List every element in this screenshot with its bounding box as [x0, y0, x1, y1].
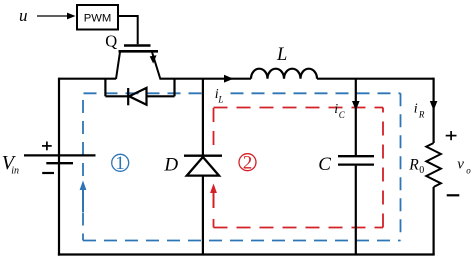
right (emitter) slant lead	[152, 52, 161, 80]
svg-text:2: 2	[243, 153, 253, 174]
label vo	[457, 157, 471, 176]
diode D (freewheeling, cathode up)	[184, 156, 222, 176]
svg-text:in: in	[11, 166, 19, 177]
emitter arrow	[150, 55, 157, 63]
wire: diode D branch lower segment	[202, 176, 204, 255]
svg-text:R: R	[408, 156, 419, 173]
node label circled 1 (blue)	[112, 153, 129, 174]
capacitor C	[338, 156, 374, 164]
wire: diode D branch upper segment	[202, 79, 204, 156]
svg-text:i: i	[334, 102, 338, 117]
label iC	[334, 102, 346, 120]
loop 2 (red dashed) right edge	[382, 108, 384, 228]
loop 2 (red dashed) left edge upper part	[213, 219, 215, 228]
left (collector) slant lead	[116, 52, 120, 79]
wire: load branch lower segment	[433, 187, 435, 255]
wire: top rail from inductor to output corner	[317, 78, 434, 80]
svg-text:PWM: PWM	[84, 13, 112, 25]
label Vin	[2, 152, 19, 176]
channel bar	[119, 50, 159, 53]
svg-text:0: 0	[419, 165, 424, 176]
svg-text:C: C	[318, 154, 331, 175]
loop 1 (blue dashed) left edge upper part	[82, 213, 84, 241]
label + of Vin	[42, 142, 52, 151]
battery Vin	[24, 155, 96, 163]
loop 1 (blue dashed) left edge lower part	[82, 93, 84, 176]
svg-text:R: R	[418, 110, 425, 120]
loop 2 (red dashed) top edge	[214, 107, 384, 109]
wire: drop from right rail to antiparallel diode branch	[173, 79, 175, 97]
input signal u arrow into PWM block	[37, 13, 76, 20]
inductor L	[251, 69, 317, 79]
svg-text:v: v	[457, 157, 464, 173]
loop 1 (blue dashed) bottom edge	[83, 240, 401, 242]
wire: drop from left rail to antiparallel diode branch	[104, 79, 106, 97]
wire: capacitor branch lower segment	[355, 166, 357, 255]
wire: PWM output to gate of Q	[118, 16, 138, 44]
wire: top-left rail from Vin+ to Q collector	[59, 78, 116, 80]
wire: antiparallel diode branch left segment	[105, 95, 129, 97]
current arrow iL on top rail	[224, 75, 234, 83]
label - of Vin	[42, 172, 54, 174]
svg-text:1: 1	[115, 153, 125, 174]
wire: left branch through battery Vin	[58, 78, 60, 256]
wire: antiparallel diode branch right segment	[147, 95, 175, 97]
node label circled 2 (red)	[239, 153, 256, 174]
label R0	[408, 156, 424, 176]
current arrow iC	[352, 101, 360, 111]
label + of vo	[446, 131, 457, 140]
gate bar	[124, 44, 151, 47]
svg-text:D: D	[163, 155, 178, 176]
transistor Q (IGBT switch)	[116, 46, 161, 80]
wire: top rail from Q emitter to inductor	[160, 78, 251, 80]
svg-text:L: L	[217, 95, 223, 105]
wire: load branch upper segment	[433, 78, 435, 143]
loop 2 (red dashed) bottom edge	[214, 227, 384, 229]
svg-text:o: o	[466, 165, 471, 175]
wire: bottom rail	[58, 253, 435, 255]
svg-text:i: i	[414, 102, 418, 117]
loop 2 (red dashed) left edge lower part	[213, 108, 215, 146]
antiparallel diode of Q (points left)	[128, 88, 146, 105]
loop 1 (blue dashed) right edge	[400, 93, 402, 240]
svg-text:C: C	[339, 110, 346, 120]
PWM block U1	[77, 5, 118, 30]
svg-text:u: u	[19, 6, 28, 25]
label iR	[414, 102, 425, 120]
label iL	[215, 87, 224, 105]
loop 2 current direction arrow (red, up)	[210, 184, 217, 209]
loop 1 current direction arrow (blue, up)	[80, 181, 87, 213]
resistor R0	[426, 143, 441, 187]
current arrow iR	[430, 101, 438, 111]
wire: capacitor branch upper segment	[355, 79, 357, 156]
svg-text:Q: Q	[105, 32, 117, 51]
svg-text:L: L	[276, 45, 287, 65]
label - of vo	[447, 194, 460, 196]
halo under iL label	[204, 87, 224, 104]
loop 1 (blue dashed) top edge	[84, 92, 401, 94]
